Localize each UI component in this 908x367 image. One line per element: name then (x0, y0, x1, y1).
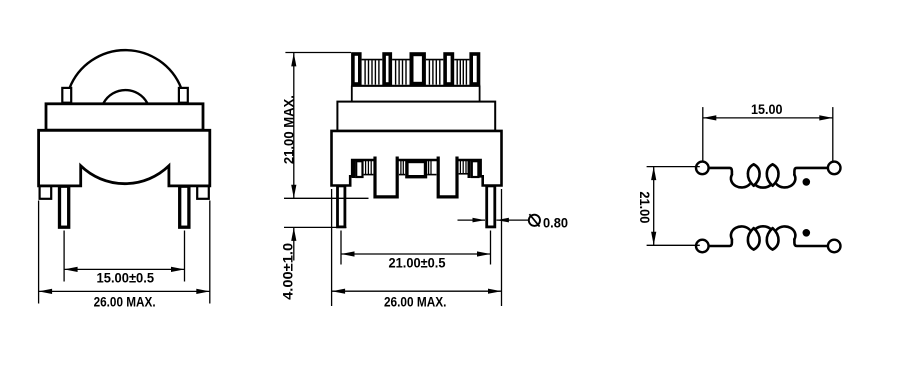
side view: main body outline with windows (332, 131, 502, 186)
front view: right pin (180, 186, 189, 227)
side view window 1: left bar (352, 161, 355, 179)
side view window 3: bar (468, 161, 471, 179)
terminal bottom-left (696, 240, 709, 253)
front view: lower body with bottom notch arc (39, 130, 210, 186)
svg-text:21.00: 21.00 (637, 191, 652, 223)
terminal top-right (828, 162, 841, 175)
side view: comb flange bar center (412, 54, 424, 84)
side view window 2: right stripes (429, 161, 431, 175)
side view: winding comb bottom line (351, 85, 480, 87)
side view: comb flange bar 5 (471, 54, 478, 84)
front view: left top tab (62, 88, 71, 103)
side view: left pin (338, 186, 345, 227)
dimension 21.00 MAX. (side view height, vertical) (281, 53, 368, 199)
dimension 21.00±0.5 (side view pin pitch) (341, 231, 491, 271)
side view window 3: white box (472, 161, 479, 177)
front view: left pin (60, 186, 69, 227)
dimension 26.00 MAX. (side view body width) (332, 189, 502, 310)
side view: comb flange bar 2 (384, 54, 390, 84)
side view: comb flange bar 4 (445, 54, 452, 84)
side view: right leg (U channel) (438, 157, 457, 197)
svg-text:26.00 MAX.: 26.00 MAX. (94, 294, 156, 309)
terminal top-left (696, 162, 709, 175)
dimension 15.00±0.5 (front view pin pitch) (64, 231, 184, 286)
side view: comb flange bar 1 (353, 54, 360, 84)
side view window 1: white box (356, 161, 362, 177)
side view window 2: left stripes (401, 161, 403, 175)
polarity dot (top winding) (803, 178, 811, 186)
side view: middle flange band (337, 102, 495, 131)
side view: neck left line (351, 86, 353, 102)
front view: right standoff (197, 186, 209, 199)
side view window 1: stripes (366, 161, 372, 175)
front view: core dome arc (70, 50, 182, 88)
side view window 3: stripes (460, 161, 466, 174)
svg-text:21.00±0.5: 21.00±0.5 (389, 256, 446, 271)
svg-text:4.00±1.0: 4.00±1.0 (280, 243, 295, 300)
side view: left leg (U channel) (375, 157, 397, 197)
side view: comb stripe group tops (362, 59, 383, 61)
svg-text:0.80: 0.80 (543, 216, 568, 231)
side view window 2: center white box (407, 162, 426, 177)
front view: inner bobbin arc (104, 90, 148, 103)
svg-text:26.00 MAX.: 26.00 MAX. (384, 295, 447, 310)
dimension 21.00 (schematic, vertical) (637, 167, 700, 246)
svg-text:21.00 MAX.: 21.00 MAX. (281, 95, 296, 164)
side view: neck right line (479, 86, 481, 102)
front view: left standoff (40, 186, 52, 199)
dimension 26.00 MAX. (front view body width) (39, 201, 210, 310)
svg-text:15.00±0.5: 15.00±0.5 (97, 271, 155, 286)
dimension 15.00 (schematic, horizontal) (703, 102, 833, 161)
front view: upper flange band (46, 104, 203, 130)
dimension 4.00±1.0 (pin length, vertical) (280, 227, 346, 300)
front view: right top tab (179, 88, 188, 103)
terminal bottom-right (828, 240, 841, 253)
side view: comb winding stripes (365, 60, 466, 84)
side view: right pin (487, 186, 495, 227)
inductor L1 (top winding) (709, 164, 828, 187)
polarity dot (bottom winding) (803, 229, 811, 237)
inductor L2 (bottom winding) (709, 226, 828, 249)
dimension diameter 0.80 (pin) (458, 214, 569, 230)
svg-text:15.00: 15.00 (751, 102, 783, 117)
